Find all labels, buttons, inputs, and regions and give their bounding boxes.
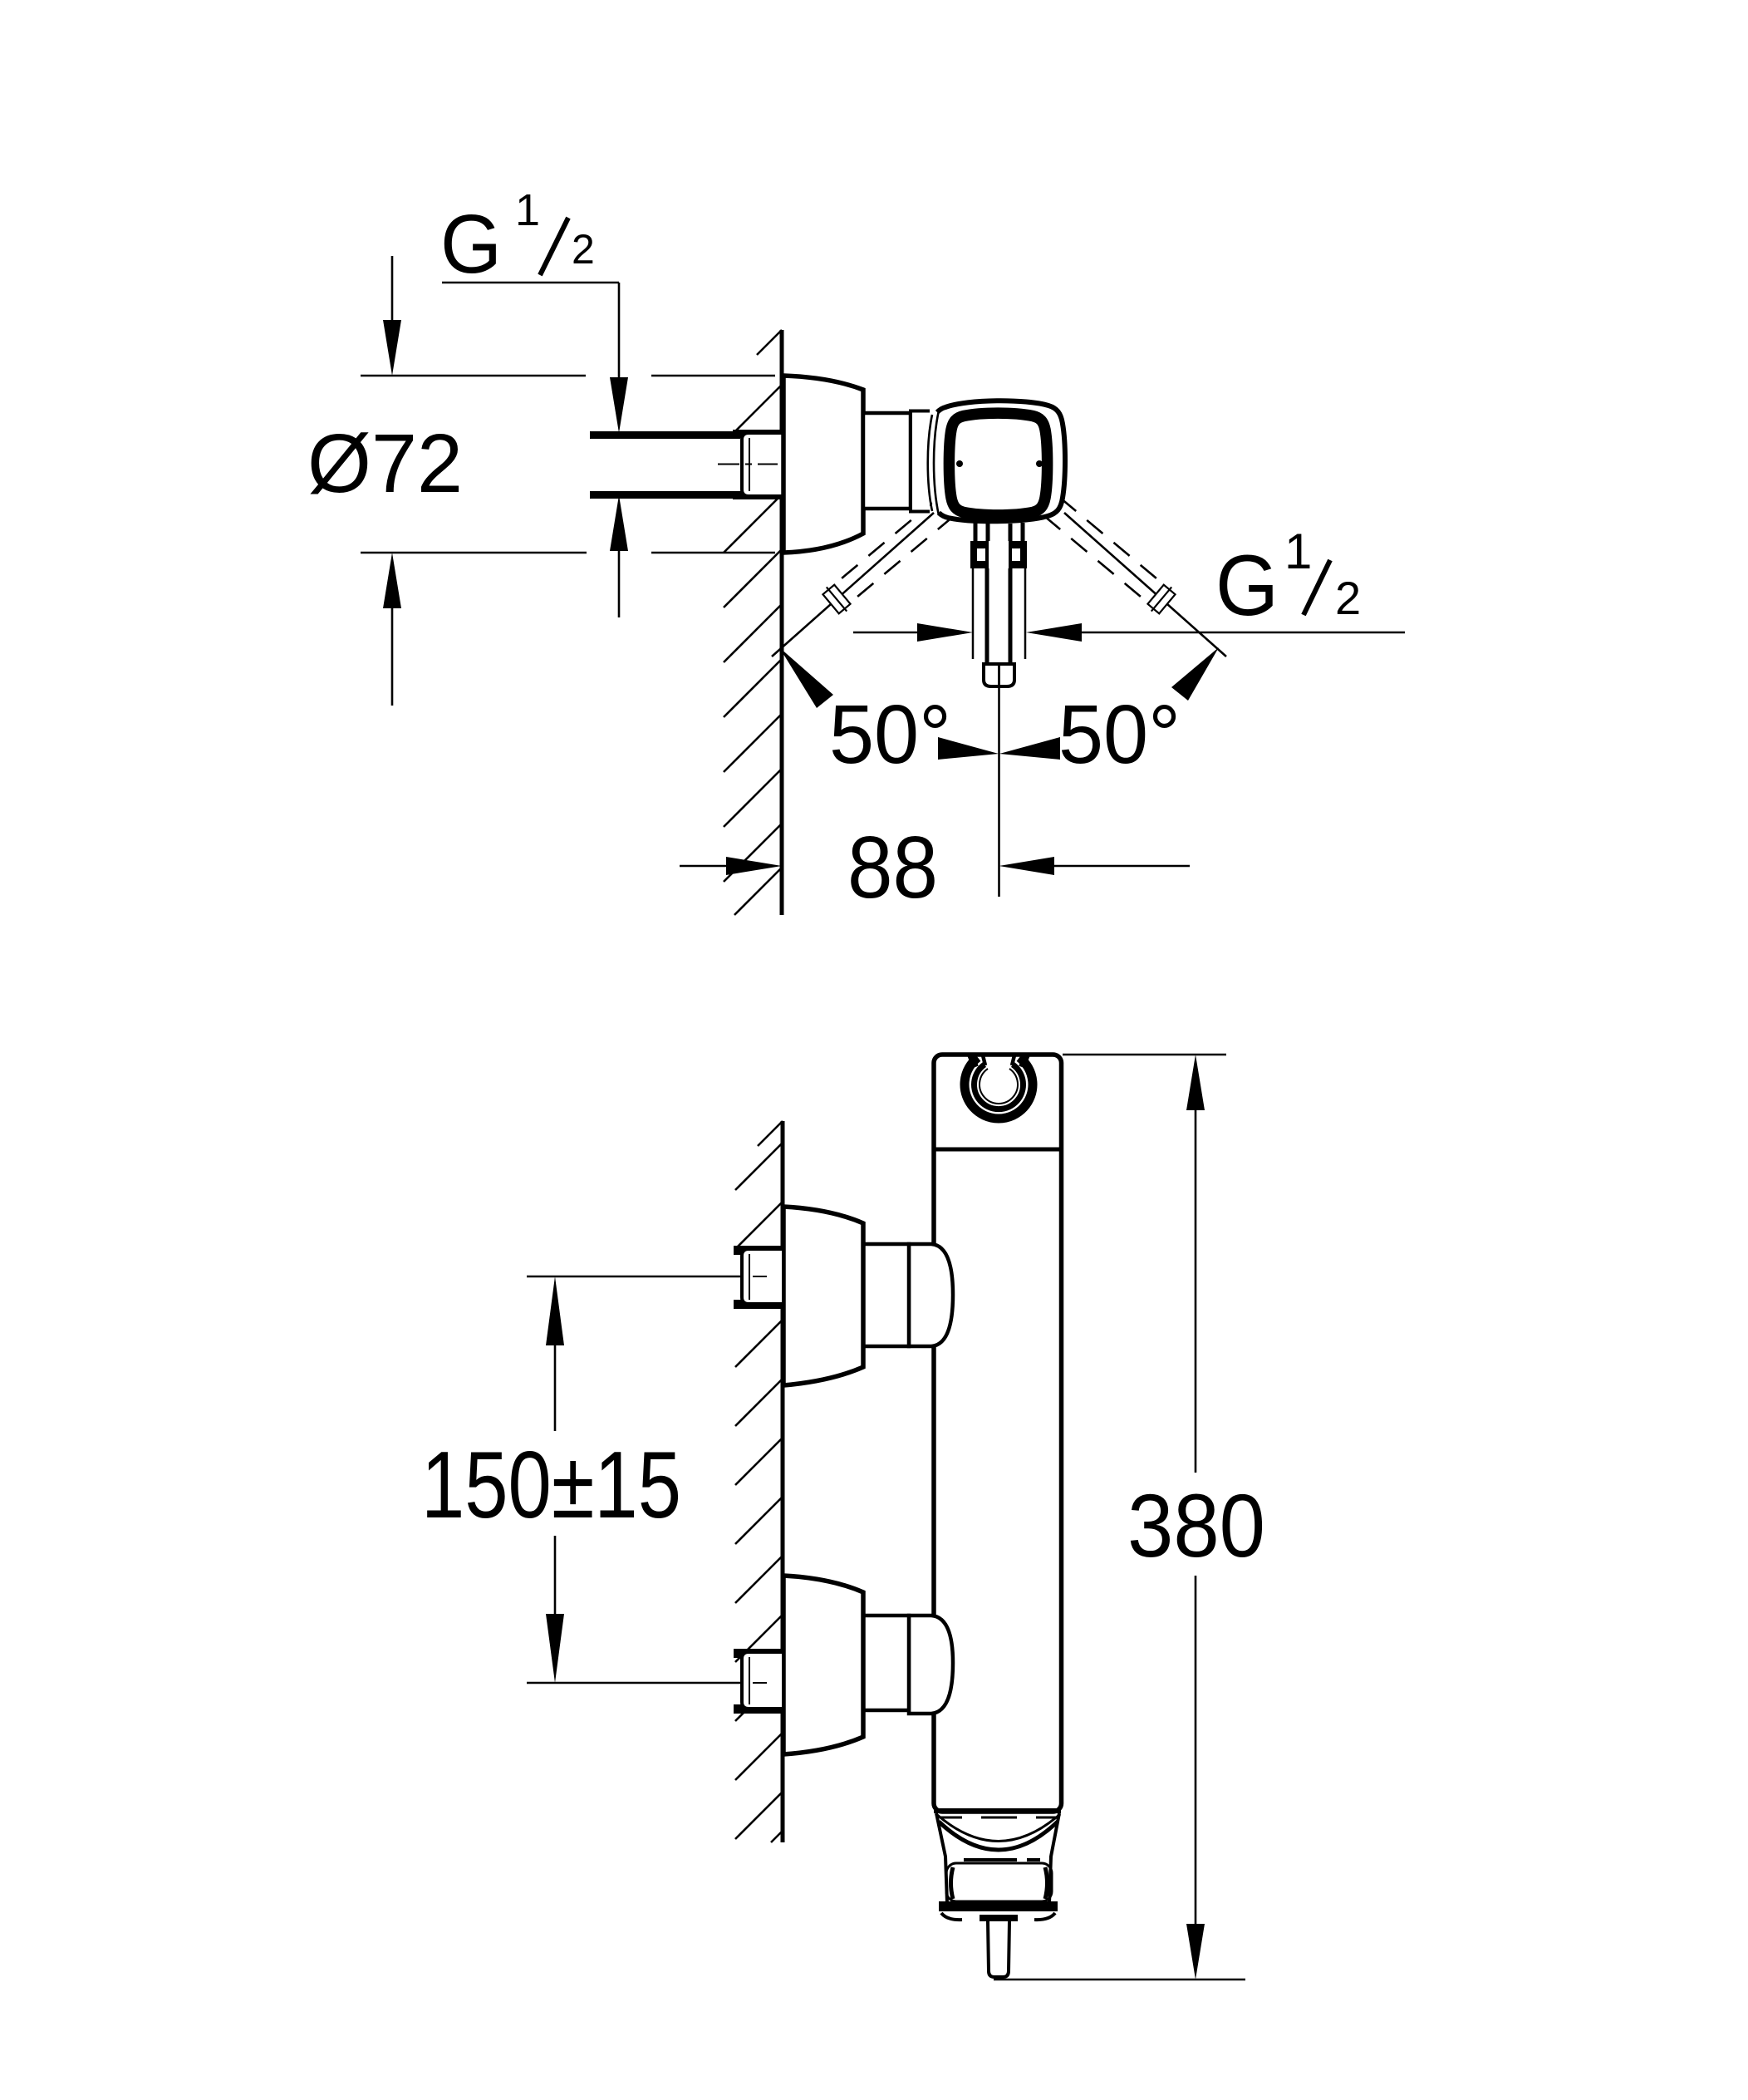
lower escutcheon [783, 1576, 863, 1754]
handle bottom band [939, 1901, 1058, 1911]
dashed lever outline right [1060, 498, 1161, 583]
shower holder U [965, 1058, 1033, 1119]
union nut (top view) [733, 430, 782, 438]
dimension G 1/2 (right, lever) [853, 632, 919, 634]
holder section line [934, 1148, 1061, 1152]
wall line (top view) [780, 330, 784, 915]
upper union nut [734, 1246, 782, 1255]
lever shaft [972, 568, 975, 659]
handle cap concave arc [936, 1814, 1060, 1842]
handle head inner ring [949, 413, 1047, 515]
svg-text:2: 2 [1335, 572, 1361, 624]
svg-text:88: 88 [847, 819, 938, 917]
svg-text:Ø72: Ø72 [307, 417, 463, 510]
outlet shoulder [980, 1915, 1018, 1921]
lever collar [970, 541, 1027, 568]
escutcheon (top view) [783, 376, 863, 553]
svg-text:1: 1 [1284, 524, 1312, 579]
handle head outer shell (top view) [937, 401, 1065, 521]
upper connection cylinder [863, 1244, 909, 1346]
handle inner outline [946, 1863, 1052, 1901]
lower union nut [734, 1649, 782, 1658]
svg-text:150±15: 150±15 [421, 1433, 681, 1538]
screw dot left [956, 460, 963, 467]
angle arrows 50 degrees [779, 647, 833, 708]
handle head cap edge arcs [928, 415, 932, 511]
rotated lever axis left [772, 513, 934, 657]
wall hatching (top view) [724, 330, 782, 915]
svg-text:50°: 50° [1058, 688, 1181, 781]
rotated lever axis right [1064, 513, 1226, 657]
handle corner ticks [941, 1913, 962, 1920]
wall hatching (bottom view) [735, 1121, 783, 1842]
dashed lever outline left [837, 498, 938, 583]
handle dashes top [940, 1817, 1056, 1819]
upper escutcheon [783, 1207, 863, 1385]
svg-text:50°: 50° [829, 688, 951, 781]
screw dot right [1036, 460, 1043, 467]
dimension 150±15 [527, 1276, 743, 1278]
valve body neck (top view) [863, 413, 911, 509]
rotated lever tip right [1146, 583, 1177, 617]
dimension Ø72 [361, 375, 586, 377]
temperature handle body [936, 1813, 1059, 1903]
dimension 88 [680, 865, 729, 868]
inlet pipe (top view) [592, 437, 743, 493]
upper connection bulge [909, 1244, 953, 1346]
handle top junction [934, 1808, 1061, 1813]
lever neck (top view) [975, 523, 1023, 543]
dimension G 1/2 (top left leader) [442, 282, 619, 284]
centre line (top view) [998, 688, 1000, 897]
dimension 380 [1063, 1054, 1226, 1056]
lower connection bulge [909, 1616, 953, 1714]
svg-text:2: 2 [572, 226, 595, 273]
handle mid dashes [964, 1858, 1040, 1861]
lever tip [984, 664, 1014, 686]
rotated lever tip left [821, 583, 852, 617]
handle head white base [927, 401, 1066, 521]
outlet stub [988, 1921, 1009, 1977]
pipe centre line (top view) [718, 464, 778, 465]
svg-text:G: G [440, 198, 502, 291]
valve body (bottom view) [934, 1055, 1062, 1812]
svg-text:380: 380 [1127, 1475, 1265, 1576]
svg-text:1: 1 [515, 185, 540, 235]
lower connection cylinder [863, 1616, 909, 1710]
svg-text:G: G [1215, 538, 1279, 634]
wall line (bottom view) [781, 1121, 785, 1842]
